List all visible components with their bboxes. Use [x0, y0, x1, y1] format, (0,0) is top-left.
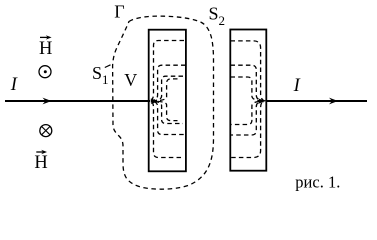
H vector label (lower)	[34, 150, 47, 173]
field line L2 rect1	[151, 65, 186, 134]
contour Gamma (large dashed loop around rect1)	[113, 16, 214, 189]
svg-text:V: V	[124, 70, 137, 90]
field line L3 rect1	[152, 76, 183, 123]
arrowhead at rect1 wire entry	[151, 98, 158, 104]
field line R3 rect2	[231, 77, 263, 125]
arrowhead at rect2 wire exit	[258, 98, 266, 104]
arrowhead on right wire	[329, 98, 338, 105]
field line R1 rect2	[231, 41, 265, 158]
plate rectangle 2	[230, 30, 266, 171]
wire right segment	[266, 100, 367, 102]
field lines in rect1 (dashed, converge at left-edge wire point)	[150, 41, 186, 158]
H vector label (upper)	[39, 35, 52, 59]
field into-page symbol (circle-cross)	[40, 125, 52, 137]
field out-of-page symbol (circle-dot)	[39, 66, 51, 78]
svg-text:Γ: Γ	[114, 1, 124, 21]
field line L4 rect1 (inner short)	[154, 79, 178, 121]
svg-text:I: I	[10, 75, 18, 95]
svg-text:H: H	[34, 153, 47, 173]
wire left segment	[5, 100, 150, 102]
svg-text:S2: S2	[209, 3, 226, 28]
field line L1 rect1	[150, 41, 184, 158]
plate rectangle 1	[149, 30, 186, 172]
svg-text:H: H	[39, 39, 52, 59]
field lines in rect2 (dashed, converge at right-edge wire point)	[231, 41, 265, 158]
field line R2 rect2	[231, 65, 264, 135]
arrowhead on left wire	[43, 98, 52, 105]
svg-text:I: I	[293, 76, 301, 96]
contour direction tick	[105, 65, 111, 68]
svg-text:рис. 1.: рис. 1.	[295, 173, 340, 192]
